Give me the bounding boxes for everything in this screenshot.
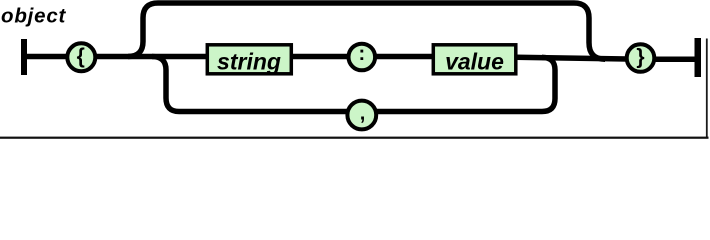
- svg-text:string: string: [217, 49, 281, 75]
- open brace terminal {: [67, 43, 95, 71]
- svg-text:value: value: [445, 49, 504, 75]
- start terminal: [21, 39, 27, 75]
- svg-text::: :: [358, 43, 365, 65]
- close brace terminal }: [627, 44, 655, 72]
- end terminal: [695, 38, 702, 77]
- value box: [433, 45, 516, 74]
- string box: [207, 45, 291, 74]
- wire value to }: [516, 57, 627, 59]
- svg-text:}: }: [636, 45, 644, 68]
- colon terminal :: [349, 44, 376, 71]
- wire } to end: [654, 56, 698, 62]
- right border line: [706, 39, 708, 138]
- svg-text:object: object: [1, 5, 67, 28]
- svg-text:,: ,: [360, 103, 366, 125]
- comma terminal ,: [347, 101, 376, 130]
- wire { to string: [95, 54, 208, 60]
- wire : to value: [374, 54, 434, 60]
- comma loop wire: [152, 57, 555, 112]
- wire start to {: [24, 54, 68, 60]
- wire string to :: [291, 54, 350, 60]
- svg-text:{: {: [77, 45, 85, 68]
- bottom separator line: [0, 137, 709, 139]
- top bypass wire: [128, 3, 605, 59]
